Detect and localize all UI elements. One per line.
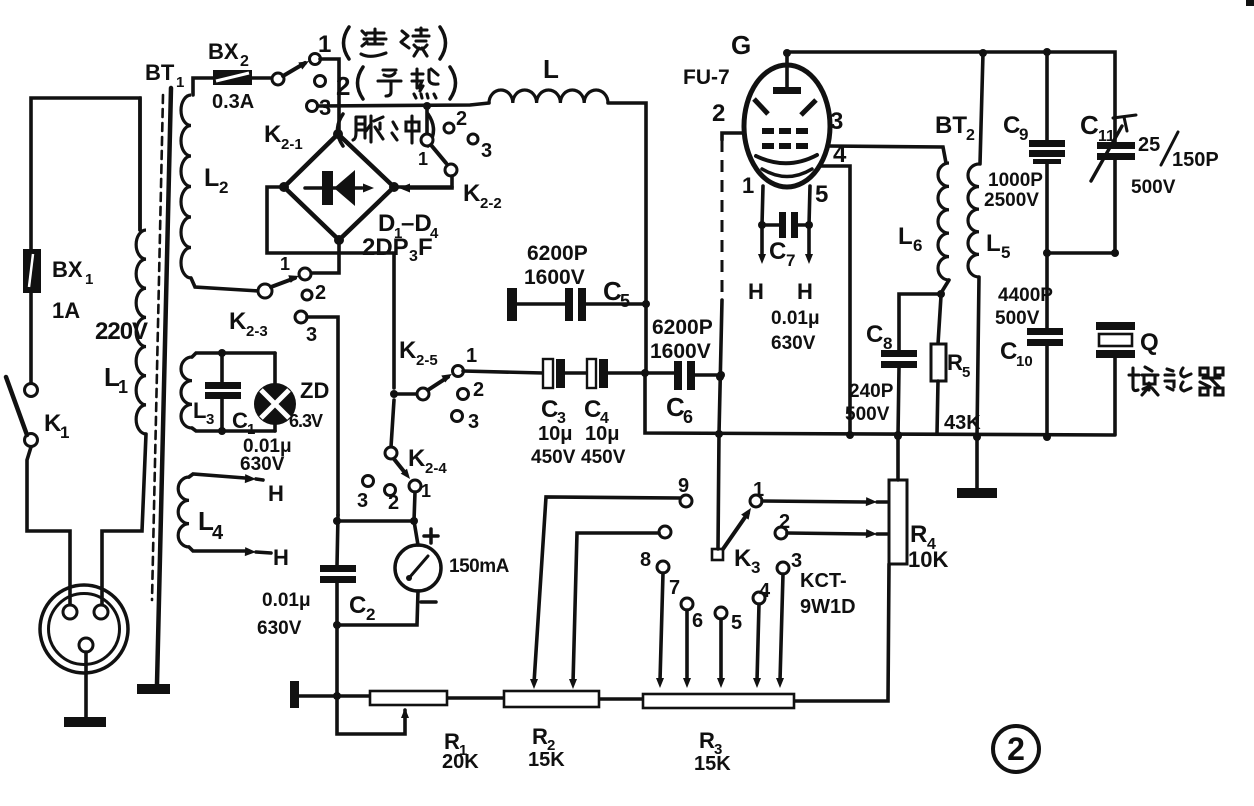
wire L to C5 node [608, 103, 646, 373]
svg-text:R: R [532, 724, 548, 749]
potentiometer R2 15K [504, 691, 599, 707]
svg-text:6: 6 [683, 407, 693, 427]
svg-text:1600V: 1600V [524, 266, 585, 289]
svg-text:3: 3 [357, 490, 368, 512]
svg-text:C: C [349, 592, 366, 619]
ground plug [64, 717, 106, 727]
svg-text:4: 4 [759, 580, 771, 602]
svg-text:K: K [229, 308, 247, 335]
svg-text:500V: 500V [845, 404, 890, 425]
svg-text:R: R [699, 728, 715, 753]
contact K3-6 [681, 598, 693, 610]
svg-text:C: C [584, 396, 601, 423]
switch K2-4 [385, 447, 397, 459]
svg-text:R: R [910, 521, 927, 548]
svg-text:3: 3 [830, 108, 843, 135]
svg-text:500V: 500V [1131, 177, 1176, 198]
wire K2-4 to meter node [414, 492, 415, 521]
svg-text:3: 3 [306, 324, 317, 346]
winding L5 [980, 53, 983, 164]
capacitor C2 [337, 515, 338, 566]
cathode arcs [756, 155, 817, 163]
grid rows [762, 128, 774, 134]
svg-text:2-4: 2-4 [425, 460, 447, 477]
svg-text:H: H [273, 545, 289, 570]
svg-text:2DP: 2DP [362, 234, 409, 261]
grid dashes [754, 99, 768, 114]
svg-text:K: K [408, 445, 426, 472]
transformer BT1 primary L1 220V [138, 98, 142, 230]
svg-text:2: 2 [779, 511, 790, 533]
svg-text:1: 1 [176, 74, 184, 91]
svg-text:2: 2 [966, 127, 975, 144]
svg-text:C: C [769, 238, 786, 265]
svg-text:150P: 150P [1172, 149, 1219, 171]
svg-text:450V: 450V [581, 447, 626, 468]
svg-text:1: 1 [85, 271, 93, 288]
wire K1 to plug pin [27, 447, 70, 604]
wire K3-5 to R3 [719, 619, 723, 681]
svg-text:1: 1 [118, 377, 128, 397]
svg-text:G: G [731, 30, 751, 60]
plate top bus [787, 52, 1115, 143]
svg-text:4: 4 [833, 141, 847, 168]
wire mains top [31, 98, 140, 252]
wiper R1 [401, 708, 409, 718]
svg-text:K: K [734, 545, 752, 572]
svg-text:H: H [797, 279, 813, 304]
svg-text:F: F [418, 234, 433, 261]
node contact1 to bridge [320, 59, 339, 130]
potentiometer R4 10K [889, 480, 907, 564]
capacitor C1 [218, 349, 226, 357]
svg-text:C: C [866, 321, 883, 348]
svg-text:0.3A: 0.3A [212, 91, 254, 113]
svg-text:6: 6 [692, 610, 703, 632]
svg-text:6: 6 [913, 236, 922, 255]
node L6/C8/R5 [937, 290, 945, 298]
contact K3-5 [715, 607, 727, 619]
svg-text:2: 2 [456, 108, 467, 130]
svg-text:C: C [232, 408, 248, 433]
switch K2-5 [390, 390, 398, 398]
svg-text:450V: 450V [531, 447, 576, 468]
svg-text:3: 3 [481, 140, 492, 162]
svg-text:3: 3 [468, 411, 479, 433]
svg-text:2-5: 2-5 [416, 352, 438, 369]
winding L4 [178, 477, 189, 547]
svg-text:KCT-: KCT- [800, 570, 847, 592]
svg-text:1000P: 1000P [988, 170, 1043, 191]
svg-text:2: 2 [240, 53, 249, 70]
svg-text:630V: 630V [240, 454, 285, 475]
transformer BT1 core [152, 95, 163, 600]
svg-text:1: 1 [466, 345, 477, 367]
svg-text:7: 7 [786, 251, 795, 270]
svg-text:2-2: 2-2 [480, 195, 502, 212]
svg-text:C: C [541, 396, 558, 423]
svg-text:2: 2 [336, 71, 350, 101]
potentiometer R3 15K [643, 694, 794, 708]
wire K3-4 to R3 [757, 604, 759, 681]
svg-text:500V: 500V [995, 308, 1040, 329]
svg-text:K: K [264, 121, 282, 148]
svg-text:5: 5 [815, 181, 828, 208]
svg-text:L: L [986, 230, 1001, 257]
svg-text:3: 3 [206, 411, 214, 428]
resistor R5 43K [938, 296, 941, 344]
svg-text:C: C [1080, 110, 1099, 140]
svg-text:9: 9 [1019, 125, 1028, 144]
tube FU-7 [744, 65, 830, 187]
svg-text:1: 1 [753, 479, 764, 501]
capacitor C6 6200P 1600V [674, 361, 682, 390]
wire K3-7 to R3 [660, 573, 663, 681]
svg-text:FU-7: FU-7 [683, 66, 730, 89]
contact K3-1 [750, 495, 762, 507]
text (maichong pulse) [338, 114, 344, 146]
svg-text:5: 5 [1001, 243, 1010, 262]
wire K3-3 to R3 [780, 574, 783, 681]
winding L6 [938, 163, 949, 280]
svg-text:2-3: 2-3 [246, 323, 268, 340]
svg-text:11: 11 [1098, 128, 1115, 145]
ground bus [975, 436, 979, 489]
meter 150mA [414, 521, 418, 545]
wire fuse to switch [29, 292, 33, 383]
svg-text:1: 1 [318, 31, 331, 58]
svg-text:9: 9 [678, 475, 689, 497]
svg-text:1: 1 [418, 149, 428, 169]
svg-text:0.01μ: 0.01μ [262, 590, 311, 611]
svg-text:2: 2 [712, 100, 725, 127]
winding L2 [193, 78, 213, 95]
svg-text:L: L [898, 223, 913, 250]
svg-text:6.3V: 6.3V [289, 411, 323, 431]
svg-text:R: R [947, 350, 963, 375]
switch K2-2 [425, 106, 429, 134]
transducer Q [1096, 322, 1135, 330]
svg-text:2: 2 [473, 379, 484, 401]
wire plug pin to ground [84, 652, 88, 718]
capacitor C10 4400P 500V [1027, 328, 1063, 335]
terminal chassis [290, 681, 299, 708]
svg-text:15K: 15K [528, 749, 565, 771]
svg-text:C: C [1003, 112, 1020, 139]
svg-text:C: C [1000, 338, 1017, 365]
diode bridge D1-D4 2DP3F [284, 134, 394, 240]
svg-text:8: 8 [883, 334, 892, 353]
capacitor C7 [762, 223, 779, 227]
svg-text:4: 4 [212, 522, 224, 544]
figure mark 2 [993, 726, 1039, 772]
svg-text:25: 25 [1138, 134, 1160, 156]
ground core [137, 684, 170, 694]
svg-text:2: 2 [315, 282, 326, 304]
svg-text:–D: –D [401, 210, 432, 237]
svg-text:150mA: 150mA [449, 556, 510, 577]
svg-text:2: 2 [366, 605, 375, 624]
contact K3-2 [775, 527, 787, 539]
svg-text:6200P: 6200P [527, 242, 588, 265]
wire to inductor L [318, 103, 489, 106]
svg-text:K: K [463, 180, 481, 207]
svg-text:630V: 630V [771, 333, 816, 354]
svg-text:15K: 15K [694, 753, 731, 775]
svg-text:240P: 240P [849, 381, 894, 402]
switch K1 [25, 384, 38, 397]
svg-text:BT: BT [935, 112, 967, 139]
wire K3-2 to R4 wiper [787, 533, 866, 534]
wire bottom bus [299, 694, 370, 698]
svg-text:H: H [748, 279, 764, 304]
svg-text:0.01μ: 0.01μ [771, 308, 820, 329]
svg-text:H: H [268, 481, 284, 506]
svg-text:BT: BT [145, 60, 175, 85]
wire meter node [410, 517, 418, 525]
wire K2-3 c3 down [307, 317, 338, 515]
svg-text:K: K [399, 337, 417, 364]
potentiometer R1 20K [370, 691, 447, 705]
svg-text:8: 8 [640, 549, 651, 571]
svg-text:10μ: 10μ [585, 423, 619, 445]
svg-text:ZD: ZD [300, 378, 329, 403]
svg-text:1: 1 [421, 481, 431, 501]
svg-text:L: L [204, 164, 219, 192]
text (lianxu continuous) [344, 27, 350, 59]
wire K3-8 to R2 [573, 533, 659, 683]
svg-text:5: 5 [731, 612, 742, 634]
svg-text:2500V: 2500V [984, 190, 1039, 211]
wire K3-1 to R4 [762, 501, 866, 502]
winding L3 [181, 357, 192, 428]
wire anode bus [645, 373, 1115, 435]
svg-text:6200P: 6200P [652, 316, 713, 339]
svg-text:3: 3 [751, 558, 760, 577]
capacitor C3 10u 450V [543, 359, 553, 388]
lamp ZD 6.3V [273, 353, 277, 383]
svg-text:1600V: 1600V [650, 340, 711, 363]
svg-text:2-1: 2-1 [281, 136, 303, 153]
svg-text:10: 10 [1016, 353, 1033, 370]
text huannengqi transducer [1129, 367, 1158, 395]
text (yure preheat) [358, 67, 364, 99]
capacitor C4 10u 450V [587, 359, 596, 388]
capacitor C9 1000P 2500V [1045, 52, 1049, 141]
wire K2-5 c1 to C3 [463, 371, 543, 373]
svg-text:10K: 10K [908, 547, 948, 572]
svg-text:1: 1 [742, 173, 754, 198]
svg-text:9W1D: 9W1D [800, 596, 856, 618]
svg-text:10μ: 10μ [538, 423, 572, 445]
contact K3-8 [659, 526, 671, 538]
svg-text:43K: 43K [944, 412, 981, 434]
scan speck [1246, 0, 1254, 6]
capacitor C5 6200P 1600V [507, 288, 517, 321]
svg-text:5: 5 [962, 364, 970, 381]
capacitor C11 25/150P 500V variable [1097, 142, 1135, 149]
mains plug connector [40, 585, 128, 673]
svg-text:D: D [378, 210, 395, 237]
svg-text:20K: 20K [442, 751, 479, 773]
svg-text:Q: Q [1140, 329, 1159, 356]
switch K2-3 [258, 284, 272, 298]
svg-text:630V: 630V [257, 618, 302, 639]
switch K3 KCT-9W1D [712, 549, 723, 560]
svg-text:2: 2 [1007, 731, 1025, 767]
fuse BX1 [24, 250, 40, 292]
svg-text:3: 3 [791, 550, 802, 572]
wire K2-5 column down [391, 400, 394, 447]
svg-text:BX: BX [52, 257, 83, 282]
switch K2-1 [272, 73, 284, 85]
svg-text:5: 5 [620, 291, 630, 311]
wire bridge bottom to K2-3 [311, 240, 339, 273]
contact K3-9 [680, 495, 692, 507]
svg-text:L: L [543, 54, 559, 84]
svg-text:BX: BX [208, 39, 239, 64]
svg-text:1A: 1A [52, 298, 80, 323]
svg-text:4400P: 4400P [998, 285, 1053, 306]
contact K3-7 [657, 561, 669, 573]
node K2-2 [423, 102, 431, 110]
wire bridge left to K2-5 column [267, 187, 394, 388]
svg-text:3: 3 [409, 248, 418, 265]
fuse BX2 0.3A [213, 70, 252, 85]
svg-text:2: 2 [388, 492, 399, 514]
grid cap [785, 52, 789, 88]
contact K3-3 [777, 562, 789, 574]
wire K3-6 to R3 [685, 610, 689, 681]
svg-text:220V: 220V [95, 318, 148, 345]
svg-text:1: 1 [60, 423, 69, 442]
svg-text:1: 1 [280, 254, 290, 274]
wire C9/C11 link [1047, 251, 1115, 255]
inductor L [489, 90, 608, 103]
contact K3-4 [753, 592, 765, 604]
capacitor C8 240P 500V [899, 294, 941, 350]
svg-text:L: L [193, 398, 206, 423]
svg-text:2: 2 [219, 178, 228, 197]
wire K3-9 to R2 [534, 497, 680, 683]
wire bridge right to K2-2 [394, 185, 452, 189]
svg-text:7: 7 [669, 577, 680, 599]
